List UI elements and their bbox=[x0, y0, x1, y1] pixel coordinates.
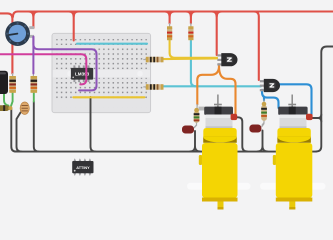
svg-text:LM393: LM393 bbox=[75, 72, 90, 77]
svg-text:ATTINY: ATTINY bbox=[76, 166, 90, 170]
